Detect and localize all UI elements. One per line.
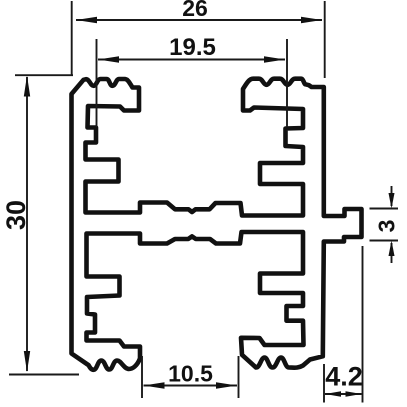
arrowhead 10.5 right: [216, 382, 237, 388]
arrowhead 3 up: [389, 241, 395, 257]
arrowhead 30 down: [24, 351, 30, 372]
extension line left for 10.5: [141, 356, 143, 398]
arrowhead 10.5 left: [144, 382, 165, 388]
dimension line 4.2: [325, 393, 362, 395]
arrowhead 4.2 right: [346, 391, 362, 397]
extension line right for 4.2: [362, 246, 364, 403]
arrowhead 4.2 left: [325, 391, 341, 397]
dimension line 19.5: [98, 59, 285, 61]
extension line bottom for 30: [9, 374, 79, 376]
arrowhead 30 up: [24, 76, 30, 97]
dimension line 26: [76, 19, 322, 21]
extension line left for 19.5: [96, 39, 98, 127]
extension line right for 10.5: [238, 356, 240, 398]
extension line left for 26: [71, 1, 73, 75]
extension line right for 19.5: [286, 39, 288, 127]
extension line bottom for 3: [370, 240, 399, 242]
svg-text:10.5: 10.5: [168, 361, 213, 387]
arrow shaft up for 3: [391, 243, 393, 263]
svg-text:4.2: 4.2: [325, 362, 363, 392]
extension line top for 30: [15, 74, 73, 76]
dimension line 30: [26, 77, 28, 371]
dimension line 10.5: [144, 385, 238, 387]
arrowhead 19.5 right: [264, 56, 285, 62]
arrowhead 26 left: [76, 17, 97, 23]
arrow shaft down for 3: [391, 186, 393, 206]
extension line top for 3: [370, 208, 399, 210]
svg-text:26: 26: [182, 0, 208, 21]
extension line left for 4.2: [323, 364, 325, 403]
extrusion profile cross-section outline: [72, 79, 362, 370]
extension line right for 26: [324, 1, 326, 78]
arrowhead 26 right: [301, 17, 322, 23]
svg-text:19.5: 19.5: [169, 34, 216, 61]
svg-text:30: 30: [1, 200, 31, 230]
svg-text:3: 3: [374, 220, 400, 233]
arrowhead 19.5 left: [98, 56, 119, 62]
arrowhead 3 down: [389, 193, 395, 209]
